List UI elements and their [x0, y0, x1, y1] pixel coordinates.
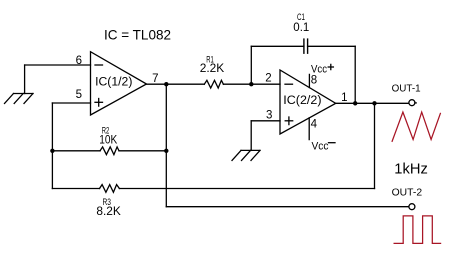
pin 8 tick — [308, 74, 310, 87]
svg-text:6: 6 — [76, 55, 82, 67]
junction dot pin2 — [249, 82, 253, 86]
junction dot R2 right — [164, 149, 168, 153]
svg-text:Vcc: Vcc — [312, 141, 329, 153]
resistor R2 wire — [52, 150, 166, 152]
junction dot R3 feedback — [372, 101, 376, 105]
resistor R2 zigzag — [100, 147, 119, 155]
svg-text:3: 3 — [266, 109, 272, 121]
wire OUT-2 horizontal — [166, 206, 409, 208]
terminal OUT-1 stub — [415, 102, 416, 104]
square waveform OUT-2 — [394, 216, 442, 244]
op-amp U1 triangle — [91, 52, 147, 115]
op-amp U2 plus sign — [285, 117, 293, 125]
wire pin6 input — [25, 64, 91, 66]
resistor R3 zigzag — [100, 185, 120, 193]
capacitor C1 left wire — [251, 45, 304, 47]
svg-text:10K: 10K — [99, 135, 117, 147]
svg-text:IC(1/2): IC(1/2) — [95, 77, 132, 89]
label Vcc+ — [311, 64, 333, 76]
pin 4 tick — [308, 118, 310, 140]
svg-text:4: 4 — [311, 119, 318, 131]
svg-text:5: 5 — [76, 89, 82, 101]
svg-text:8: 8 — [311, 74, 317, 86]
op-amp U1 minus sign — [95, 64, 103, 66]
op-amp U2 minus sign — [285, 83, 293, 85]
node A vertical wire — [51, 103, 53, 189]
capacitor C1 plates — [304, 39, 308, 53]
wire R3 feedback vertical — [374, 103, 376, 188]
wire pin3 input — [251, 120, 280, 122]
svg-text:1: 1 — [341, 92, 347, 104]
svg-text:IC(2/2): IC(2/2) — [283, 95, 321, 107]
svg-text:7: 7 — [152, 73, 158, 85]
wire pin5 input — [52, 102, 90, 104]
terminal OUT-1 circle — [409, 100, 415, 106]
wire U2 output — [336, 102, 409, 104]
svg-text:0.1: 0.1 — [293, 22, 309, 34]
svg-text:8.2K: 8.2K — [96, 206, 121, 218]
ground G1 — [5, 65, 34, 104]
label Vcc- — [312, 141, 336, 153]
resistor R1 zigzag — [204, 80, 223, 88]
triangle waveform OUT-1 — [392, 112, 441, 142]
wire U1 output to U2 input — [147, 83, 281, 85]
svg-text:OUT-2: OUT-2 — [392, 187, 423, 198]
wire C1 left vertical — [250, 46, 252, 84]
svg-text:C1: C1 — [297, 12, 305, 22]
junction dot pin7 — [164, 82, 168, 86]
junction dot C1 feedback — [353, 101, 357, 105]
svg-text:2: 2 — [265, 73, 271, 85]
svg-text:2.2K: 2.2K — [200, 63, 225, 75]
svg-text:1kHz: 1kHz — [394, 162, 428, 178]
svg-text:Vcc: Vcc — [311, 64, 327, 76]
ground G2 — [232, 150, 260, 160]
resistor R3 wire — [52, 188, 374, 190]
wire pin3 vertical — [250, 121, 252, 151]
op-amp U2 triangle — [280, 70, 336, 134]
wire pin7 vertical down — [165, 84, 167, 207]
op-amp U1 plus sign — [95, 99, 103, 107]
svg-text:IC = TL082: IC = TL082 — [104, 27, 171, 42]
capacitor C1 right wire — [308, 45, 356, 47]
wire C1 right vertical — [354, 46, 356, 103]
terminal OUT-2 circle — [409, 204, 415, 210]
svg-text:OUT-1: OUT-1 — [392, 84, 421, 95]
junction dot node A — [50, 149, 54, 153]
